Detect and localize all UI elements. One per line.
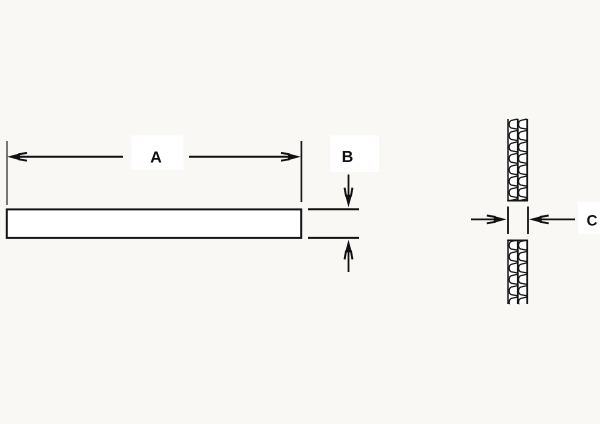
strip bottom: flute squiggle column 1	[509, 240, 518, 307]
arrowhead A left	[7, 153, 27, 161]
arrowhead B down	[345, 188, 353, 208]
strip top: vertical liner middle	[517, 119, 519, 201]
extension line right (dim A)	[300, 141, 302, 202]
strip bottom: top cap at break	[507, 239, 528, 241]
label C	[587, 215, 597, 226]
dimension line A left segment	[14, 156, 123, 158]
arrowhead B up	[345, 240, 353, 260]
strip bottom: vertical liner middle	[517, 240, 519, 304]
arrowhead C left-pointing	[529, 216, 549, 224]
extension line left (dim C)	[507, 207, 509, 235]
extension line left (dim A)	[6, 141, 8, 205]
extension line top (dim B)	[308, 208, 359, 210]
label B background	[330, 136, 379, 173]
strip top: vertical liner left	[507, 119, 509, 201]
dim B upper arrow line	[348, 175, 350, 201]
pad side-view rectangle	[7, 209, 301, 238]
arrowhead C right-pointing	[487, 216, 507, 224]
strip top: flute squiggle column 2	[519, 119, 528, 209]
corrugated strip bottom: white fill	[508, 240, 527, 304]
strip bottom: flute squiggle column 2	[519, 240, 528, 307]
corrugated strip top: white fill	[508, 119, 527, 201]
label A	[151, 151, 162, 162]
strip top: bottom cap at break	[507, 200, 528, 202]
strip top: vertical liner right	[526, 119, 528, 201]
strip bottom: vertical liner left	[507, 240, 509, 304]
dim C left line	[471, 218, 500, 220]
dim C right line	[536, 218, 575, 220]
strip top: flute squiggle column 1	[509, 119, 518, 209]
extension line bottom (dim B)	[308, 237, 359, 239]
dim B lower arrow line	[348, 246, 350, 272]
dimension line A right segment	[189, 156, 294, 158]
strip bottom: vertical liner right	[526, 240, 528, 304]
extension line right (dim C)	[527, 207, 529, 235]
label B	[343, 151, 353, 162]
label A background	[132, 136, 184, 170]
label C background	[578, 202, 600, 234]
arrowhead A right	[281, 153, 301, 161]
